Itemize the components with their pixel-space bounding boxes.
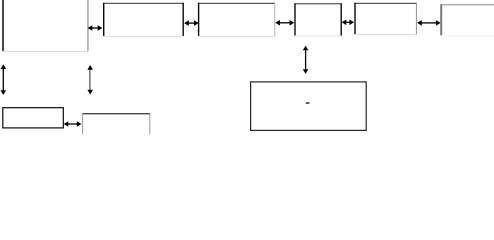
box 4 (fourth field box) bbox=[294, 3, 342, 36]
arrow V2 (vertical double-headed, below box1 right) bbox=[87, 65, 93, 95]
arrow A6 (box7-box8 spacing, double-headed) bbox=[64, 121, 82, 127]
dash label inside box 9 bbox=[306, 102, 310, 103]
arrow V3 (vertical double-headed, box4 to box9) bbox=[303, 46, 309, 74]
arrow A4 (box4-box5 spacing, double-headed) bbox=[342, 20, 355, 26]
box 2 (second field box) bbox=[103, 3, 184, 37]
box 1 (top-left field box, cropped at top) bbox=[2, 0, 88, 52]
box 8 (bottom box, cropped at bottom) bbox=[82, 113, 150, 134]
box 7 (bottom-left small box) bbox=[3, 108, 64, 128]
arrow A5 (box5-box6 spacing, double-headed) bbox=[417, 20, 441, 26]
box 9 (bottom-middle box) bbox=[251, 82, 367, 130]
arrow A3 (box3-box4 spacing, double-headed) bbox=[275, 20, 294, 26]
arrow A1 (box1-box2 spacing, double-headed) bbox=[88, 25, 103, 31]
box 6 (sixth field box, cropped at right) bbox=[440, 4, 494, 36]
box 5 (fifth field box) bbox=[354, 3, 417, 35]
box 3 (third field box) bbox=[198, 3, 275, 37]
arrow A2 (box2-box3 spacing, double-headed) bbox=[184, 20, 199, 26]
arrow V1 (vertical double-headed, below box1 left) bbox=[1, 64, 7, 95]
